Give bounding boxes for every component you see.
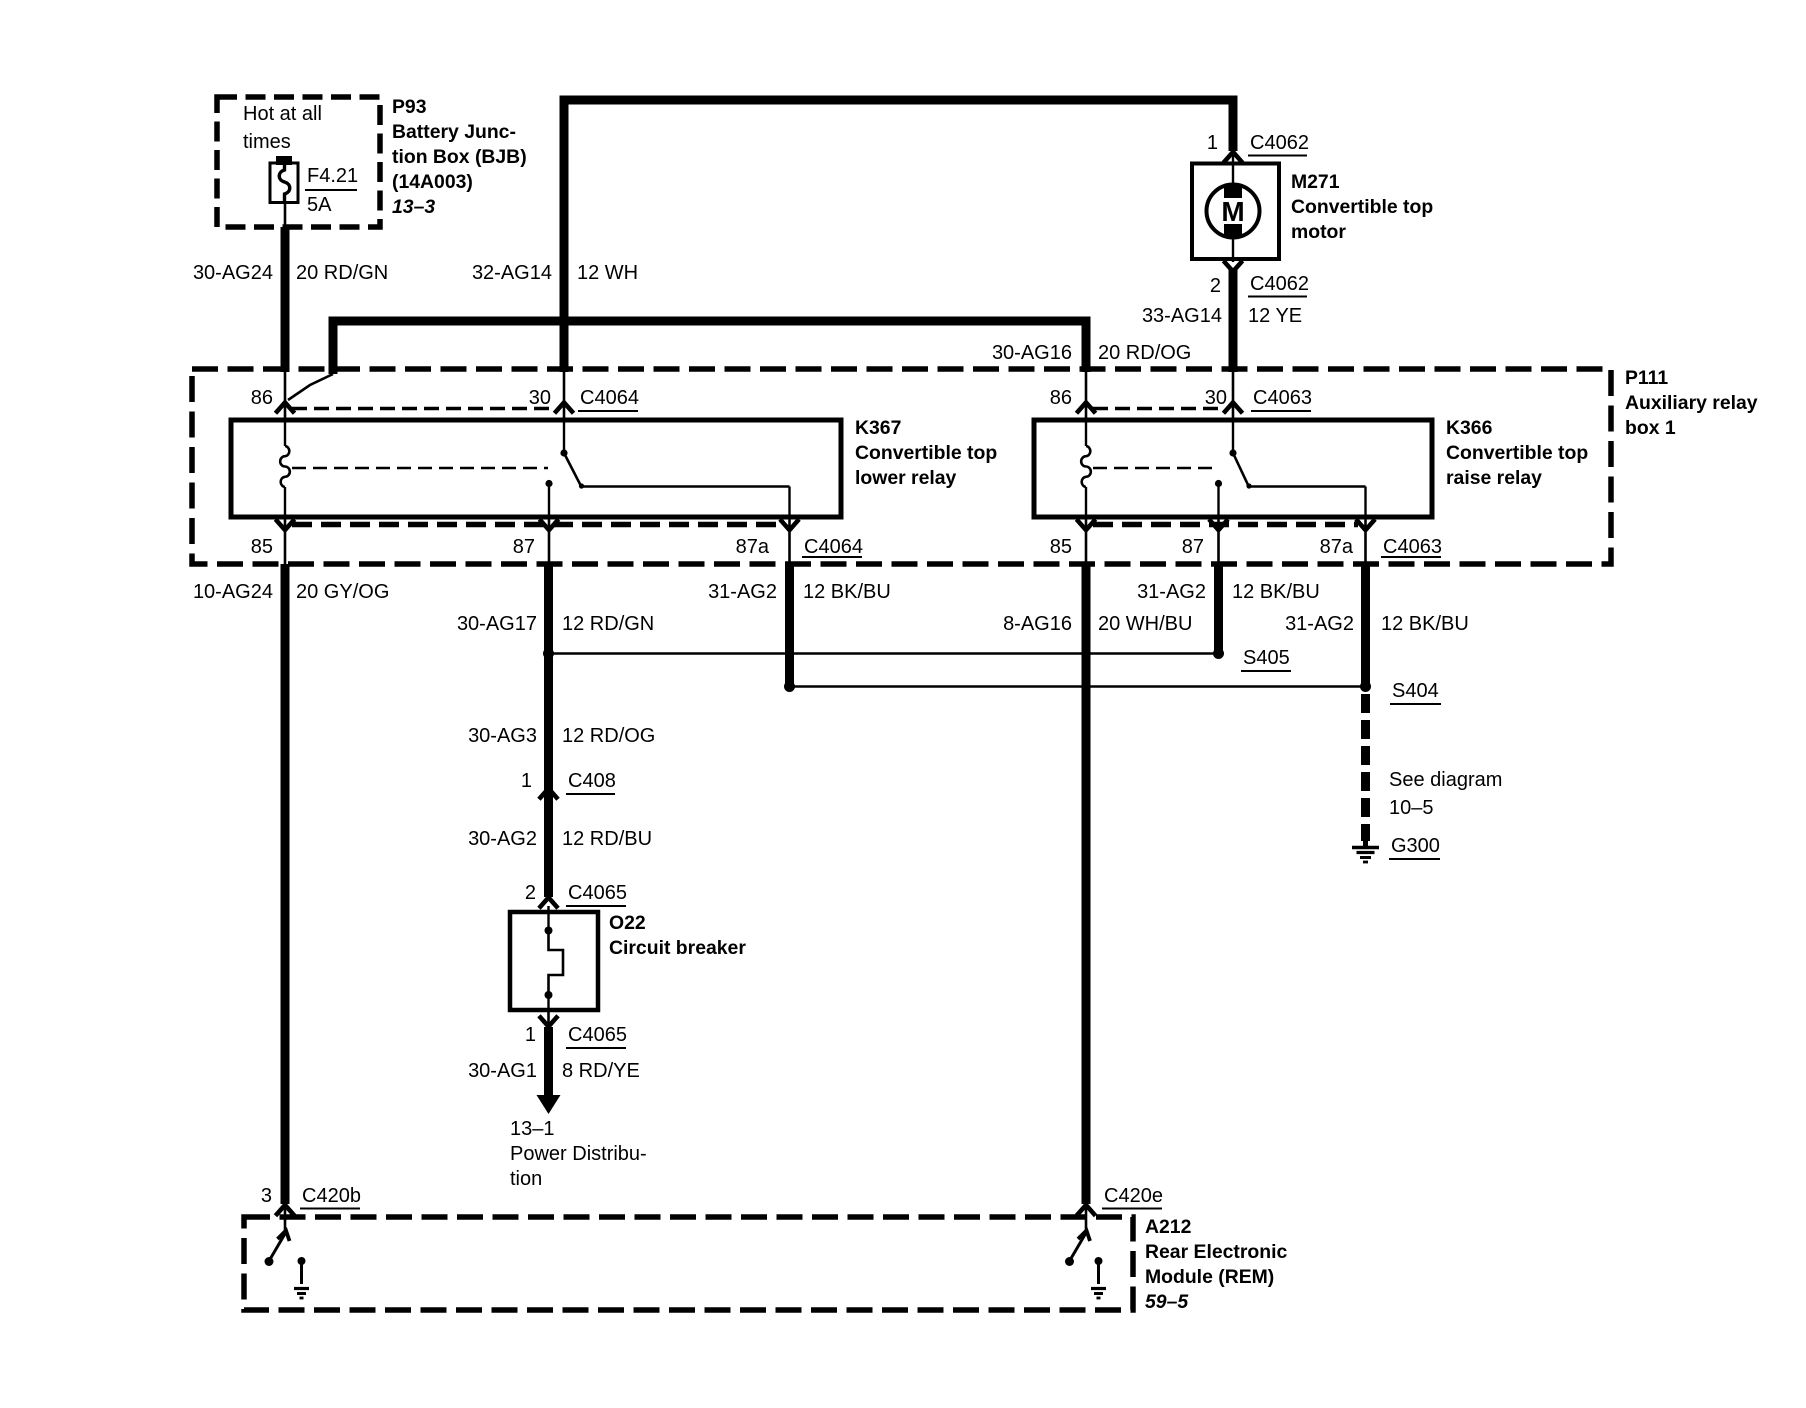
relay K367 contact 87: [545, 480, 552, 487]
svg-text:C420b: C420b: [302, 1185, 361, 1207]
splice S405: [1213, 648, 1224, 659]
connector C4063 dashed line (bottom): [1093, 522, 1358, 528]
svg-text:Rear Electronic: Rear Electronic: [1145, 1241, 1287, 1263]
svg-text:10-AG24: 10-AG24: [193, 581, 273, 603]
svg-text:85: 85: [251, 536, 273, 558]
svg-text:30-AG3: 30-AG3: [468, 725, 537, 747]
svg-text:tion: tion: [510, 1168, 542, 1190]
connector C4065 pin 2 arrow: [541, 898, 557, 907]
fuse F4.21 5A: [276, 156, 292, 165]
svg-text:Module (REM): Module (REM): [1145, 1266, 1274, 1288]
relay K367 switch common pin 30: [563, 420, 565, 453]
connector C4062 pin 1 arrow: [1225, 152, 1241, 161]
motor M271 symbol: [1232, 152, 1234, 186]
svg-text:10–5: 10–5: [1389, 797, 1434, 819]
relay K366 switch common pin 30: [1232, 420, 1234, 453]
svg-text:(14A003): (14A003): [392, 171, 473, 193]
relay K366 pin 30 arrow: [1232, 372, 1235, 420]
connector C4064 dashed line (bottom): [292, 522, 783, 528]
arrow to power distribution: [537, 1095, 561, 1114]
svg-text:S404: S404: [1392, 680, 1439, 702]
svg-text:30-AG24: 30-AG24: [193, 262, 273, 284]
svg-text:Convertible top: Convertible top: [1446, 442, 1588, 464]
svg-text:20 RD/OG: 20 RD/OG: [1098, 342, 1191, 364]
wire 31-AG2 12 BK/BU (K366 87a down): [1361, 564, 1370, 687]
svg-text:1: 1: [1207, 132, 1218, 154]
relay K367 coil: [284, 420, 286, 446]
svg-text:12 YE: 12 YE: [1248, 305, 1302, 327]
svg-text:8-AG16: 8-AG16: [1003, 613, 1072, 635]
svg-text:C4062: C4062: [1250, 273, 1309, 295]
svg-text:59–5: 59–5: [1145, 1291, 1189, 1313]
wire 30-AG17 12 RD/GN (K367 87 down): [544, 564, 553, 897]
relay K366 pin 87a arrow: [1364, 517, 1367, 564]
svg-text:3: 3: [261, 1185, 272, 1207]
svg-text:K367: K367: [855, 417, 901, 439]
svg-text:M271: M271: [1291, 171, 1340, 193]
connector C420b pin 3 arrow: [277, 1205, 293, 1214]
wire 31-AG2 12 BK/BU (K367 87a down): [785, 564, 794, 687]
svg-text:87a: 87a: [736, 536, 770, 558]
svg-text:C408: C408: [568, 770, 616, 792]
relay K367 contact 87a path: [582, 485, 790, 487]
svg-text:2: 2: [1210, 275, 1221, 297]
relay K367 pin 87a arrow: [788, 517, 791, 564]
svg-text:C4063: C4063: [1383, 536, 1442, 558]
svg-text:31-AG2: 31-AG2: [1285, 613, 1354, 635]
motor M271 box: [1192, 164, 1279, 260]
svg-text:12 BK/BU: 12 BK/BU: [803, 581, 891, 603]
svg-text:30-AG2: 30-AG2: [468, 828, 537, 850]
svg-text:C4065: C4065: [568, 1024, 627, 1046]
wire 30-AG16 20 RD/OG (branch bus to K366 pin 86): [333, 321, 1086, 374]
relay K367 coil-contact link (dashed): [292, 467, 548, 469]
svg-text:85: 85: [1050, 536, 1072, 558]
connector C4064 dashed line (top): [292, 407, 556, 410]
relay K366 coil-contact link (dashed): [1093, 467, 1216, 469]
svg-text:P93: P93: [392, 96, 427, 118]
svg-text:motor: motor: [1291, 221, 1346, 243]
svg-text:Power Distribu-: Power Distribu-: [510, 1143, 647, 1165]
svg-text:C4064: C4064: [804, 536, 863, 558]
junction dot at K367 87 wire: [543, 648, 554, 659]
relay K366 pin 85 arrow: [1085, 517, 1088, 564]
svg-text:13–3: 13–3: [392, 196, 435, 218]
svg-text:Hot at all: Hot at all: [243, 103, 322, 125]
svg-text:times: times: [243, 131, 291, 153]
svg-text:P111: P111: [1625, 367, 1668, 389]
svg-text:1: 1: [525, 1024, 536, 1046]
ground G300 symbol: [1363, 838, 1368, 847]
svg-text:Battery Junc-: Battery Junc-: [392, 121, 516, 143]
splice S404 wire: [790, 685, 1366, 687]
relay K366 pin 86 arrow: [1085, 372, 1088, 420]
svg-text:C4064: C4064: [580, 387, 639, 409]
svg-text:31-AG2: 31-AG2: [1137, 581, 1206, 603]
REM ground (right): [1095, 1257, 1103, 1265]
svg-text:C4062: C4062: [1250, 132, 1309, 154]
svg-text:C4065: C4065: [568, 882, 627, 904]
rear electronic module A212 (dashed enclosure): [244, 1217, 1133, 1310]
svg-text:Convertible top: Convertible top: [855, 442, 997, 464]
wire to G300 (thick dashed): [1361, 694, 1370, 841]
svg-text:box 1: box 1: [1625, 417, 1676, 439]
svg-text:87: 87: [513, 536, 535, 558]
circuit breaker O22 box: [510, 912, 598, 1010]
svg-text:32-AG14: 32-AG14: [472, 262, 552, 284]
circuit breaker O22 element: [547, 906, 549, 931]
wire 33-AG14 12 YE (motor pin 2 to K366 pin 30): [1229, 269, 1238, 372]
relay K366 contact 87a path: [1249, 485, 1366, 487]
svg-text:raise relay: raise relay: [1446, 467, 1542, 489]
svg-text:12 RD/GN: 12 RD/GN: [562, 613, 654, 635]
svg-text:5A: 5A: [307, 194, 332, 216]
svg-text:Circuit breaker: Circuit breaker: [609, 937, 746, 959]
svg-text:30-AG16: 30-AG16: [992, 342, 1072, 364]
svg-text:lower relay: lower relay: [855, 467, 957, 489]
svg-text:87a: 87a: [1320, 536, 1354, 558]
svg-text:31-AG2: 31-AG2: [708, 581, 777, 603]
svg-text:C420e: C420e: [1104, 1185, 1163, 1207]
battery junction box P93 (dashed enclosure): [217, 97, 380, 227]
svg-text:2: 2: [525, 882, 536, 904]
connector C4062 pin 2 arrow: [1225, 263, 1241, 272]
svg-text:12 BK/BU: 12 BK/BU: [1232, 581, 1320, 603]
splice S405 wire: [549, 652, 1219, 654]
svg-text:30: 30: [1205, 387, 1227, 409]
junction dot at K367 87a wire: [784, 681, 795, 692]
wire branch into K367 pin 86 (diagonal): [288, 374, 333, 400]
relay K366 contact 87: [1215, 480, 1222, 487]
relay K367 pin 86 arrow: [284, 372, 287, 420]
connector C4063 dashed line (top): [1093, 407, 1225, 410]
svg-text:86: 86: [251, 387, 273, 409]
svg-text:12 RD/OG: 12 RD/OG: [562, 725, 655, 747]
wire 32-AG14 12 WH (top bus from K367 pin 30 to motor pin 1): [564, 100, 1233, 372]
connector C4065 pin 1 arrow: [547, 1010, 550, 1027]
REM switch (right): [1070, 1232, 1087, 1261]
svg-text:12 BK/BU: 12 BK/BU: [1381, 613, 1469, 635]
relay K367 pin 85 arrow: [284, 517, 287, 564]
relay K366 pin 87 arrow: [1217, 517, 1220, 564]
svg-text:20 WH/BU: 20 WH/BU: [1098, 613, 1192, 635]
svg-text:F4.21: F4.21: [307, 165, 358, 187]
relay K367 pin 87 arrow: [548, 517, 551, 564]
svg-text:12 RD/BU: 12 RD/BU: [562, 828, 652, 850]
svg-text:30: 30: [529, 387, 551, 409]
splice S404: [1360, 681, 1371, 692]
wire 31-AG2 12 BK/BU (K366 87 down): [1214, 564, 1223, 654]
relay K366 coil: [1085, 420, 1087, 446]
svg-text:K366: K366: [1446, 417, 1493, 439]
svg-text:Convertible top: Convertible top: [1291, 196, 1433, 218]
svg-text:20 GY/OG: 20 GY/OG: [296, 581, 389, 603]
wire 8-AG16 20 WH/BU (K366 85 to REM): [1082, 564, 1091, 1204]
svg-text:33-AG14: 33-AG14: [1142, 305, 1222, 327]
connector C408 arrow: [541, 789, 557, 798]
connector C420e arrow: [1078, 1205, 1094, 1214]
svg-text:20 RD/GN: 20 RD/GN: [296, 262, 388, 284]
svg-text:M: M: [1221, 196, 1244, 227]
svg-text:86: 86: [1050, 387, 1072, 409]
relay K367 pin 30 arrow: [563, 372, 566, 420]
svg-text:O22: O22: [609, 912, 646, 934]
wire fuse output 30-AG24 (P93 to K367 pin 86): [284, 202, 287, 227]
svg-text:30-AG1: 30-AG1: [468, 1060, 537, 1082]
svg-text:1: 1: [521, 770, 532, 792]
svg-text:8 RD/YE: 8 RD/YE: [562, 1060, 640, 1082]
auxiliary relay box P111 (dashed enclosure): [192, 369, 1611, 564]
svg-text:A212: A212: [1145, 1216, 1191, 1238]
REM ground (left): [298, 1257, 306, 1265]
svg-text:See diagram: See diagram: [1389, 769, 1502, 791]
wire 10-AG24 20 GY/OG (K367 85 to REM): [281, 564, 290, 1204]
svg-text:12 WH: 12 WH: [577, 262, 638, 284]
svg-text:87: 87: [1182, 536, 1204, 558]
relay K367 box: [231, 420, 841, 517]
wire 30-AG1 8 RD/YE: [544, 1027, 553, 1098]
svg-text:13–1: 13–1: [510, 1118, 555, 1140]
svg-text:30-AG17: 30-AG17: [457, 613, 537, 635]
svg-text:G300: G300: [1391, 835, 1440, 857]
relay K366 box: [1034, 420, 1432, 517]
REM switch (left): [269, 1232, 286, 1261]
svg-text:tion Box (BJB): tion Box (BJB): [392, 146, 527, 168]
svg-text:Auxiliary relay: Auxiliary relay: [1625, 392, 1758, 414]
relay K367 switch blade: [564, 453, 582, 487]
svg-text:C4063: C4063: [1253, 387, 1312, 409]
svg-text:S405: S405: [1243, 647, 1290, 669]
relay K366 switch blade: [1233, 453, 1249, 487]
